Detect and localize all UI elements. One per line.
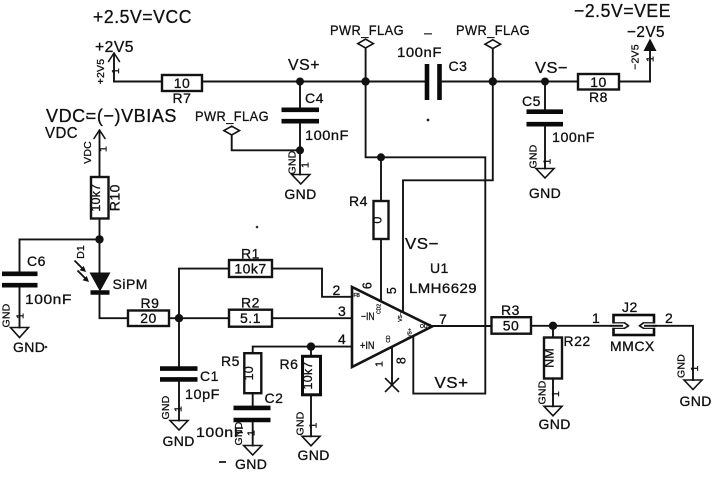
power symbol -2V5	[627, 24, 665, 82]
junction R4 top	[377, 153, 385, 161]
svg-text:C6: C6	[27, 253, 46, 269]
wire to C6	[20, 239, 100, 271]
svg-text:1: 1	[308, 422, 320, 428]
capacitor C5	[522, 82, 595, 169]
svg-text:−2V5: −2V5	[630, 44, 642, 70]
wire +2V5 to R7	[114, 81, 162, 83]
wire R4 top stem	[380, 157, 382, 201]
svg-text:−2V5: −2V5	[627, 24, 665, 41]
svg-text:100nF: 100nF	[397, 44, 442, 60]
wire R22 to gnd	[552, 379, 554, 407]
svg-text:R4: R4	[349, 193, 368, 209]
resistor R2	[229, 295, 272, 327]
capacitor C1	[160, 368, 220, 421]
svg-text:10: 10	[590, 74, 607, 90]
svg-text:J2: J2	[622, 299, 638, 315]
svg-text:R9: R9	[141, 295, 160, 311]
svg-text:4: 4	[338, 331, 346, 347]
svg-text:R22: R22	[564, 333, 591, 349]
svg-text:C3: C3	[449, 58, 468, 74]
ground R6	[295, 411, 330, 463]
photodiode D1 SiPM	[75, 239, 148, 292]
svg-text:10k7: 10k7	[234, 261, 266, 277]
svg-text:1: 1	[645, 56, 657, 62]
svg-text:CD2: CD2	[377, 304, 383, 314]
svg-text:1: 1	[110, 68, 122, 74]
svg-text:−IN: −IN	[361, 311, 375, 323]
svg-text:10: 10	[242, 366, 256, 380]
svg-text:GND: GND	[680, 393, 712, 409]
wire VS+ rail down and around to pin 8	[366, 82, 486, 394]
resistor R3	[492, 302, 532, 334]
resistor R6	[280, 356, 321, 395]
svg-text:1: 1	[592, 310, 600, 326]
svg-text:10k7: 10k7	[89, 184, 103, 212]
svg-text:GND: GND	[160, 395, 172, 419]
svg-text:VS+: VS+	[408, 328, 414, 338]
svg-text:100nF: 100nF	[305, 127, 349, 143]
svg-text:U1: U1	[430, 260, 449, 276]
ground C5	[528, 144, 562, 201]
svg-text:GND: GND	[235, 456, 267, 472]
svg-text:FB: FB	[354, 293, 361, 299]
connector J2 MMCX	[592, 299, 673, 354]
wire R3 to J2	[531, 325, 614, 327]
wire R6 to gnd	[310, 395, 312, 437]
scan specks	[427, 119, 430, 122]
capacitor C3	[397, 44, 467, 100]
svg-text:VDC: VDC	[45, 125, 78, 142]
op-amp U1 triangle	[352, 287, 432, 367]
svg-text:10pF: 10pF	[185, 386, 220, 402]
ground C4	[284, 150, 316, 202]
svg-text:VS−: VS−	[398, 312, 404, 322]
wire junction down to C1	[178, 318, 180, 366]
svg-text:C4: C4	[305, 90, 324, 106]
resistor R22	[542, 326, 590, 379]
resistor R8	[578, 74, 619, 105]
junction C5 on rail	[541, 78, 549, 86]
svg-text:PWR_FLAG: PWR_FLAG	[195, 108, 269, 124]
svg-text:PWR_FLAG: PWR_FLAG	[330, 22, 404, 38]
junction C4 bottom / gnd	[296, 146, 304, 154]
svg-text:VS+: VS+	[288, 57, 320, 74]
svg-text:R10: R10	[107, 184, 123, 211]
svg-text:20: 20	[140, 310, 157, 326]
svg-text:1: 1	[374, 361, 386, 367]
svg-text:R2: R2	[241, 295, 260, 311]
svg-text:1: 1	[173, 406, 185, 412]
svg-text:10: 10	[174, 75, 191, 91]
capacitor C6	[2, 253, 72, 328]
svg-text:GND: GND	[528, 144, 540, 168]
svg-text:+2V5: +2V5	[95, 59, 107, 85]
svg-text:2: 2	[333, 282, 341, 298]
wire junction up to R1	[179, 269, 229, 319]
power symbol VDC	[45, 125, 110, 176]
junction R22	[549, 322, 557, 330]
svg-text:GND: GND	[539, 416, 571, 432]
junction R9 / R1 / C1	[175, 314, 183, 322]
svg-text:100nF: 100nF	[552, 129, 595, 145]
svg-text:R5: R5	[221, 353, 240, 369]
svg-text:GND: GND	[298, 447, 330, 463]
svg-text:GND: GND	[286, 150, 298, 174]
svg-text:R8: R8	[589, 89, 608, 105]
ground R22	[537, 380, 571, 432]
junction PWR_FLAG1 on VS+ rail	[361, 77, 369, 85]
ground J2	[676, 354, 712, 409]
svg-text:R7: R7	[173, 90, 192, 106]
svg-text:C5: C5	[522, 93, 541, 109]
junction PWR_FLAG2 / VS- branch	[489, 77, 497, 85]
svg-text:GND: GND	[537, 380, 549, 404]
PWR_FLAG 1	[330, 22, 404, 82]
svg-text:1: 1	[550, 391, 562, 397]
svg-text:NM: NM	[542, 348, 556, 368]
wire VS- branch down to pin 5	[403, 82, 493, 313]
PWR_FLAG 2	[456, 22, 530, 82]
resistor R10	[89, 177, 123, 239]
wire R8 to -2V5	[619, 81, 650, 83]
svg-text:R1: R1	[241, 246, 260, 262]
svg-text:C1: C1	[200, 368, 219, 384]
resistor R7	[162, 75, 202, 106]
svg-text:50: 50	[503, 318, 520, 334]
resistor R9	[128, 295, 169, 326]
svg-text:1: 1	[542, 158, 554, 164]
wire J2 pin2 to gnd	[654, 326, 693, 380]
svg-text:GND: GND	[529, 185, 561, 201]
output wire pin 7 to R3	[432, 325, 492, 327]
svg-text:MMCX: MMCX	[610, 338, 655, 354]
wire R2 to pin 3	[272, 317, 352, 319]
svg-text:PWR_FLAG: PWR_FLAG	[456, 22, 530, 38]
junction pin4 / R6	[307, 342, 315, 350]
wire R5 to C2	[252, 393, 254, 405]
svg-text:R3: R3	[501, 302, 520, 318]
wire D1 to R9	[100, 293, 129, 319]
svg-text:GND: GND	[13, 339, 45, 355]
svg-text:1: 1	[98, 146, 110, 152]
junction R10 / C6 / D1	[95, 235, 103, 243]
svg-text:GND: GND	[676, 354, 688, 378]
svg-text:1: 1	[300, 162, 312, 168]
svg-text:VS−: VS−	[405, 236, 439, 253]
svg-text:VS+: VS+	[435, 375, 469, 392]
ground C1	[160, 395, 195, 449]
svg-text:VS−: VS−	[535, 60, 568, 77]
svg-text:+2.5V=VCC: +2.5V=VCC	[93, 6, 192, 27]
power symbol +2V5	[95, 39, 134, 84]
capacitor C4	[282, 82, 350, 175]
svg-text:7: 7	[439, 311, 447, 327]
opamp U1 labels	[405, 236, 477, 392]
svg-text:10k7: 10k7	[301, 362, 315, 390]
svg-text:0: 0	[371, 216, 385, 223]
svg-text:C2: C2	[265, 390, 284, 406]
svg-text:1: 1	[15, 313, 27, 319]
svg-text:GND: GND	[295, 411, 307, 435]
capacitor C2	[196, 390, 283, 446]
svg-text:D1: D1	[75, 245, 87, 259]
svg-text:R6: R6	[280, 356, 299, 372]
svg-text:6: 6	[361, 282, 375, 289]
svg-text:LMH6629: LMH6629	[409, 280, 477, 296]
svg-text:3: 3	[338, 303, 346, 319]
resistor R5	[221, 353, 261, 393]
svg-text:CD: CD	[386, 335, 392, 343]
wire R4 to pin 6	[380, 239, 382, 301]
svg-text:GND: GND	[1, 303, 13, 327]
wire C3 to R8	[440, 81, 579, 83]
svg-text:SiPM: SiPM	[113, 276, 148, 292]
svg-text:VDC=(−)VBIAS: VDC=(−)VBIAS	[46, 105, 177, 126]
svg-text:5: 5	[385, 287, 399, 294]
resistor R1	[229, 246, 272, 278]
svg-text:1: 1	[689, 365, 701, 371]
svg-text:5.1: 5.1	[240, 310, 261, 326]
svg-text:GND: GND	[233, 421, 245, 445]
ground C6	[1, 303, 46, 355]
pin 4 wire / R5 / R6	[253, 347, 352, 354]
junction VS+ / C4	[296, 78, 304, 86]
svg-text:+IN: +IN	[360, 340, 375, 352]
pin 1 no-connect	[386, 347, 399, 391]
resistor R4	[349, 193, 389, 239]
svg-text:VDC: VDC	[82, 141, 94, 164]
ground C2	[233, 421, 267, 472]
PWR_FLAG 3	[195, 108, 300, 150]
pin 2 wire from R1	[272, 269, 352, 297]
svg-text:8: 8	[395, 357, 409, 364]
svg-text:100nF: 100nF	[25, 291, 72, 307]
svg-text:2: 2	[665, 310, 673, 326]
svg-text:OUT: OUT	[420, 324, 431, 330]
svg-text:−2.5V=VEE: −2.5V=VEE	[574, 0, 671, 21]
wire R9 to R2	[169, 317, 229, 319]
wire R7 to C3	[202, 81, 425, 83]
svg-text:1: 1	[246, 430, 258, 436]
svg-text:GND: GND	[163, 433, 195, 449]
svg-text:GND: GND	[284, 186, 316, 202]
